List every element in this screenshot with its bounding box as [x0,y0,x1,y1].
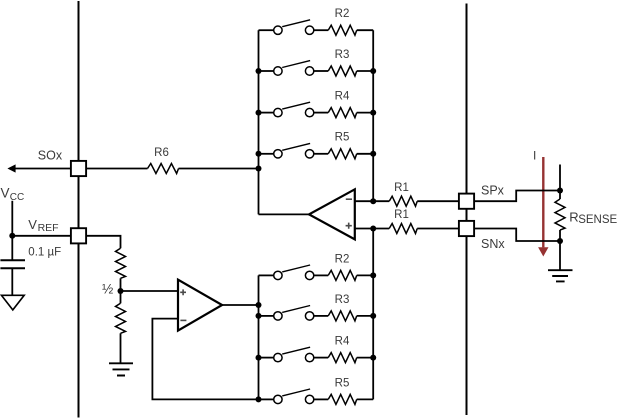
junction [370,355,376,361]
switch SWR5 (top) [259,143,314,158]
wire VREF pin to divider [86,236,120,249]
switch SWR4 (bottom) [259,347,314,362]
resistor R4 (top) [314,108,373,118]
junction [370,272,376,278]
junction [256,151,262,157]
junction Rsense top [557,188,563,194]
svg-text:R4: R4 [335,91,350,103]
svg-text:R1: R1 [394,182,409,194]
op-amp U1 [309,189,355,239]
junction Rsense bottom [557,238,563,244]
capacitor 0.1uF [0,260,25,268]
switch SWR2 (top) [259,20,314,35]
svg-text:SPx: SPx [481,183,505,197]
svg-text:0.1 µF: 0.1 µF [28,246,61,258]
resistor R5 (bottom) [314,394,373,404]
junction VREF tap [9,233,15,239]
wire divider to ground [120,333,122,363]
pin SNx [459,221,474,236]
svg-text:R3: R3 [335,49,350,61]
switch SWR2 (bottom) [259,265,314,280]
svg-text:SNx: SNx [481,237,505,251]
switch SWR4 (top) [259,102,314,117]
resistor R3 (top) [314,66,373,76]
op-amp U2 buffer [178,280,222,331]
resistor R3 (bottom) [314,311,373,321]
wire inverting input [355,200,373,202]
svg-text:REF: REF [38,222,59,234]
ground (divider) [109,363,133,375]
wire buffer feedback [152,319,258,400]
resistor RSENSE [555,191,565,242]
svg-text:R2: R2 [335,253,350,265]
svg-text:R4: R4 [335,336,350,348]
switch SWR3 (top) [259,61,314,76]
node divider mid [118,288,124,294]
SOx output arrow [7,164,71,172]
wire divider to buffer input [121,290,179,292]
svg-text:R6: R6 [154,147,169,159]
junction [256,396,262,402]
junction [256,110,262,116]
ground (Rsense) [548,241,573,281]
top network right bus wire [372,30,374,201]
resistor R2 (top) [314,25,373,35]
pin VREF [71,228,86,243]
resistor divider top [116,248,126,278]
switch SWR3 (bottom) [259,306,314,321]
svg-text:I: I [533,149,536,163]
resistor R1 [373,224,459,234]
junction [256,313,262,319]
junction buffer output [256,302,262,308]
svg-text:R1: R1 [394,209,409,221]
current arrow I [538,157,548,257]
wire VCC [11,201,13,260]
svg-text:½: ½ [102,282,113,297]
wire op-amp output [259,213,310,215]
svg-text:SENSE: SENSE [578,214,617,226]
wire SNx to Rsense bottom [474,229,560,242]
pin SOx [71,161,86,176]
top network left bus wire [258,30,260,214]
bottom network left bus wire [258,275,260,399]
wire divider mid [120,278,122,303]
junction [370,68,376,74]
junction [370,110,376,116]
node R6 junction [256,166,262,172]
junction [256,355,262,361]
resistor R1 [373,196,459,206]
resistor R4 (bottom) [314,353,373,363]
svg-text:R3: R3 [335,294,350,306]
resistor R2 (bottom) [314,270,373,280]
svg-text:R2: R2 [335,8,350,20]
right package boundary [466,4,468,416]
wire SPx to Rsense top [474,165,560,202]
pin SPx [459,194,474,209]
resistor R6 [86,164,258,174]
junction [256,68,262,74]
left package boundary [78,1,80,418]
svg-text:SOx: SOx [38,149,63,163]
svg-text:V: V [28,217,37,232]
wire cap to ground [11,268,13,295]
resistor divider bottom [116,303,126,333]
resistor R5 (top) [314,149,373,159]
ground (chassis triangle) [1,295,24,310]
junction [370,151,376,157]
bottom network right bus wire [372,229,374,400]
wire buffer output [222,304,258,306]
switch SWR5 (bottom) [259,389,314,404]
junction non-inverting [370,226,376,232]
svg-text:R5: R5 [335,377,350,389]
junction inverting [370,198,376,204]
svg-text:R5: R5 [335,132,350,144]
wire non-inverting input [355,228,373,230]
svg-text:V: V [1,186,10,201]
junction [370,313,376,319]
wire VREF [12,235,71,237]
